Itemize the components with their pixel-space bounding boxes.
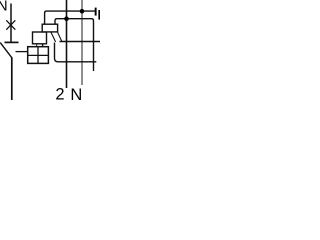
svg-text:N: N [70,86,82,100]
svg-text:2: 2 [55,85,64,100]
svg-text:N: N [0,0,8,15]
